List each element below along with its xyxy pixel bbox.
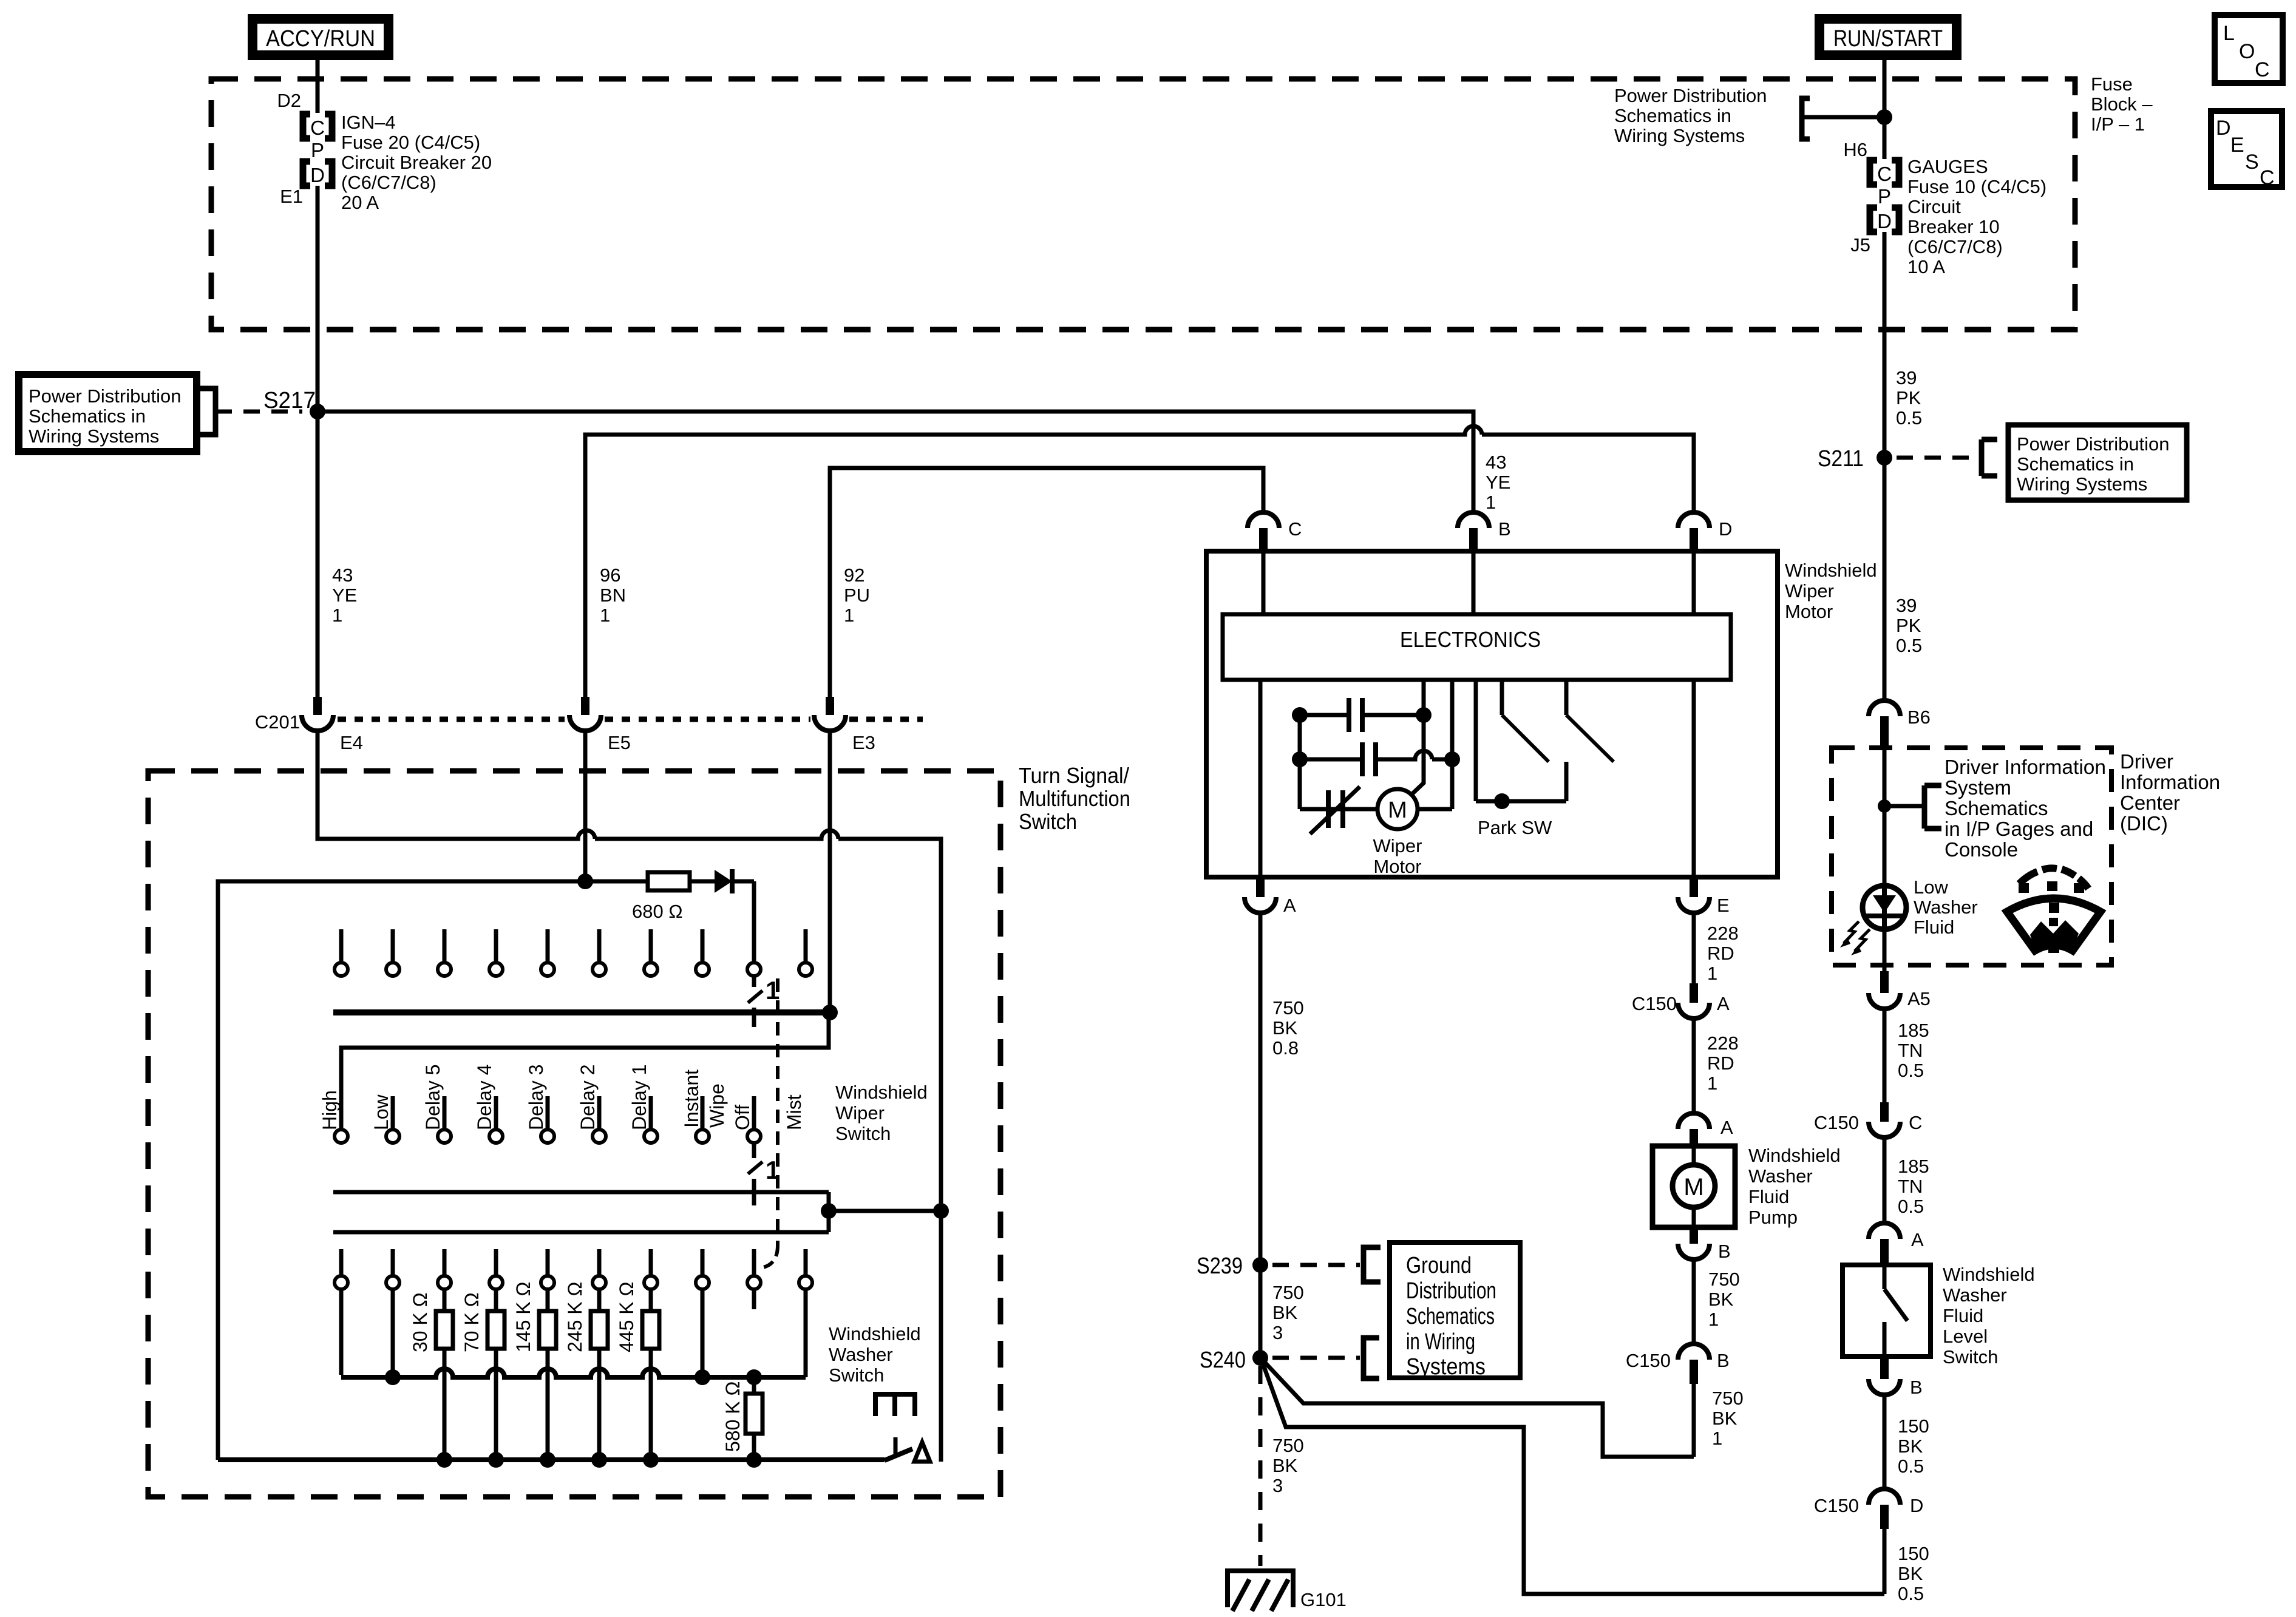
svg-text:92: 92 [844,564,864,586]
svg-text:Switch: Switch [829,1364,884,1386]
svg-text:Wiring Systems: Wiring Systems [2017,473,2147,495]
row 2 contact stubs [391,1096,395,1130]
svg-text:BK: BK [1898,1436,1923,1457]
svg-text:C150: C150 [1626,1350,1671,1371]
rail high speed [341,1015,829,1130]
turn signal multifunction switch dashed box [148,771,1000,1497]
svg-text:S240: S240 [1200,1347,1246,1373]
wire capacitor right leg [1450,680,1455,809]
svg-text:C201: C201 [255,711,300,733]
svg-text:D: D [310,164,325,186]
svg-text:Windshield: Windshield [835,1082,928,1103]
connector A5 [1880,971,1889,993]
capacitor 2 [1300,751,1452,759]
svg-text:228: 228 [1707,1032,1739,1054]
svg-text:245 K Ω: 245 K Ω [564,1282,586,1352]
bracket S239 [1364,1247,1381,1282]
svg-text:D: D [1719,518,1732,540]
junction low [385,1369,401,1385]
svg-text:1: 1 [600,605,610,626]
svg-text:Motor: Motor [1785,601,1833,622]
washer spray icon [2007,898,2101,951]
washer switch arrow [914,1442,930,1462]
reference box Power Distribution left [19,375,197,452]
svg-text:Washer: Washer [1748,1165,1813,1187]
wire E5 branch to wiper motor D [585,426,1694,714]
svg-text:Schematics: Schematics [1944,797,2048,819]
svg-text:Wiring Systems: Wiring Systems [1614,125,1745,146]
svg-text:Low: Low [1914,876,1948,898]
bracket left reference [200,388,216,435]
link washer rail to washer feed [829,1209,941,1213]
svg-text:Distribution: Distribution [1406,1278,1496,1304]
svg-text:C150: C150 [1814,1112,1859,1133]
svg-text:43: 43 [1486,452,1506,473]
wire 750 BK 1 [1692,1259,1696,1343]
svg-text:PK: PK [1896,615,1921,636]
svg-text:20 A: 20 A [341,192,379,213]
wire RUN/START feed [1883,60,1887,159]
svg-text:C: C [2255,58,2270,81]
wire 228 RD 1 [1692,913,1696,983]
svg-text:Information: Information [2120,771,2220,793]
svg-text:Ground: Ground [1406,1253,1472,1278]
svg-text:Low: Low [370,1094,392,1130]
svg-text:1: 1 [1486,492,1496,513]
svg-text:70 K Ω: 70 K Ω [461,1292,483,1352]
svg-text:150: 150 [1898,1543,1929,1564]
svg-text:E: E [2230,134,2244,157]
svg-text:Windshield: Windshield [1748,1145,1841,1166]
svg-text:1: 1 [1707,1073,1717,1094]
svg-text:Systems: Systems [1406,1354,1486,1380]
svg-text:Wiper: Wiper [1373,835,1422,856]
svg-text:RUN/START: RUN/START [1833,26,1943,52]
svg-text:680 Ω: 680 Ω [632,901,683,922]
reference box Power Distribution right [2008,425,2187,500]
svg-text:0.5: 0.5 [1896,635,1922,656]
svg-text:Turn Signal/: Turn Signal/ [1019,763,1129,788]
svg-text:BK: BK [1708,1289,1734,1310]
svg-text:750: 750 [1272,997,1304,1019]
svg-text:Delay 1: Delay 1 [628,1065,650,1131]
wiper motor M [1377,789,1418,829]
svg-text:B: B [1718,1241,1731,1262]
svg-text:C: C [1877,163,1892,185]
svg-text:RD: RD [1707,943,1734,964]
svg-text:0.5: 0.5 [1898,1456,1924,1477]
svg-text:(C6/C7/C8): (C6/C7/C8) [341,172,436,193]
connector E wiper motor [1690,877,1698,897]
svg-text:Schematics in: Schematics in [1614,105,1731,126]
connector C150 cavity D [1869,1489,1900,1505]
svg-text:Center: Center [2120,792,2180,814]
svg-text:BK: BK [1712,1408,1737,1429]
svg-text:YE: YE [332,585,357,606]
splice S239 [1252,1257,1268,1273]
svg-text:Switch: Switch [835,1123,891,1144]
washer switch lever [885,1449,912,1460]
svg-text:C150: C150 [1632,993,1677,1014]
motor supply rail [1300,807,1377,812]
connector D wiper motor [1678,512,1710,528]
svg-text:S: S [2245,151,2259,174]
svg-text:E1: E1 [280,186,303,207]
svg-text:S217: S217 [263,388,316,413]
svg-text:185: 185 [1898,1020,1929,1041]
svg-text:D: D [1877,210,1892,232]
svg-text:Console: Console [1944,838,2018,861]
ground G101 [1228,1571,1293,1607]
svg-text:Windshield: Windshield [829,1323,921,1344]
svg-text:PU: PU [844,585,870,606]
svg-text:750: 750 [1272,1282,1304,1303]
svg-text:D: D [2216,117,2231,140]
svg-text:in I/P Gages and: in I/P Gages and [1944,818,2093,840]
svg-text:Wipe: Wipe [706,1083,728,1128]
svg-text:IGN–4: IGN–4 [341,112,396,133]
wire delay resistor feed [218,881,648,1460]
svg-text:O: O [2239,40,2255,63]
svg-text:Pump: Pump [1748,1207,1798,1228]
svg-text:0.5: 0.5 [1896,407,1922,429]
svg-text:145 K Ω: 145 K Ω [512,1282,534,1352]
junction washer rail [821,1203,837,1219]
svg-text:Instant: Instant [681,1070,702,1128]
svg-text:Windshield: Windshield [1785,560,1877,581]
junction E5 delay feed [577,873,593,889]
svg-text:TN: TN [1898,1176,1923,1197]
svg-text:Delay 3: Delay 3 [525,1065,547,1131]
svg-text:Windshield: Windshield [1943,1264,2035,1285]
svg-text:Motor: Motor [1373,856,1421,877]
indicator low washer fluid [1863,886,1906,929]
row 3 contact stubs [339,1249,344,1276]
resistor 580 K [752,1377,756,1394]
driver information center dashed box [1832,748,2111,965]
svg-text:Driver Information: Driver Information [1944,756,2106,778]
svg-text:Park SW: Park SW [1478,817,1552,838]
bottom bus [218,1457,885,1462]
DESC reference box [2211,111,2282,187]
off-mist moving contact upper [752,976,756,987]
ignition switch symbol [1326,790,1331,828]
wire E4 into switch top rail [318,731,941,1462]
connector B wiper motor [1458,512,1489,528]
svg-text:Schematics: Schematics [1406,1304,1495,1329]
svg-text:(C6/C7/C8): (C6/C7/C8) [1907,236,2003,257]
svg-text:Delay 5: Delay 5 [422,1065,444,1131]
svg-text:0.5: 0.5 [1898,1196,1924,1217]
bus rail A [333,1009,830,1015]
wire low to resistor bus [391,1289,395,1375]
svg-text:E4: E4 [340,732,363,753]
diode [715,870,732,893]
svg-text:Fuse: Fuse [2091,73,2133,95]
svg-text:BN: BN [600,585,626,606]
svg-text:C: C [2260,166,2275,189]
connector C150 cavity C [1880,1102,1889,1122]
svg-text:Driver: Driver [2120,750,2173,773]
svg-text:H6: H6 [1843,139,1867,160]
wire fuse to S217 [316,186,320,412]
dashed link S211 [1897,456,1982,460]
rail washer slot [333,1192,829,1232]
wire E3 branch to wiper motor C [830,468,1263,714]
electronics box [1223,614,1731,680]
svg-text:228: 228 [1707,923,1739,944]
wire E inside [1692,680,1696,877]
wire 150 BK 0.5 [1883,1395,1887,1488]
svg-text:D2: D2 [277,90,301,111]
bracket to power distribution reference [1802,98,1810,139]
connector C201 cavity E4 [313,697,322,715]
connector A washer pump [1678,1113,1710,1129]
washer switch fixed contact [875,1394,915,1416]
wire level switch ground to S240 [1263,1363,1884,1594]
svg-text:Off: Off [732,1105,753,1130]
connector C wiper motor [1248,512,1279,528]
fuse GAUGES CPD symbol [1870,160,1877,185]
wire 43 YE from S217 down [316,412,320,714]
wire E5 into switch [583,731,588,881]
svg-text:Block –: Block – [2091,93,2153,115]
resistor mid bus [341,1369,806,1377]
wire into DIC [1883,748,1887,971]
svg-text:G101: G101 [1300,1589,1347,1610]
svg-text:1: 1 [1712,1428,1722,1449]
svg-text:C: C [1288,518,1302,540]
svg-text:L: L [2223,22,2235,45]
svg-text:Wiring Systems: Wiring Systems [29,425,159,447]
wire S217 to wiper motor B [318,412,1473,512]
svg-text:E: E [1717,895,1730,916]
svg-text:Level: Level [1943,1326,1988,1347]
svg-text:YE: YE [1486,472,1510,493]
svg-text:750: 750 [1712,1388,1744,1409]
svg-text:Washer: Washer [829,1344,893,1365]
wire fuse to S211 [1883,232,1887,458]
svg-text:ELECTRONICS: ELECTRONICS [1400,627,1541,652]
junction instant wipe [695,1369,710,1385]
LOC reference box [2215,15,2283,83]
svg-text:E3: E3 [852,732,875,753]
svg-text:0.8: 0.8 [1272,1037,1299,1059]
svg-text:BK: BK [1272,1455,1298,1476]
svg-text:Fluid: Fluid [1914,917,1954,938]
connector B washer pump [1690,1227,1698,1244]
wire E3 into switch [828,731,832,1012]
svg-text:PK: PK [1896,387,1921,408]
svg-text:B: B [1717,1350,1730,1371]
wires connectors to electronics [1262,551,1266,614]
svg-text:150: 150 [1898,1415,1929,1437]
svg-text:ACCY/RUN: ACCY/RUN [266,26,375,52]
svg-text:750: 750 [1272,1435,1304,1456]
spray dashes [2019,872,2037,884]
dashed link S240 [1272,1356,1360,1360]
wire instant wipe to bus [701,1289,705,1375]
svg-text:1: 1 [844,605,854,626]
wire A inside [1258,680,1263,877]
svg-text:P: P [1878,185,1891,208]
bracket S211 [1982,439,1997,476]
svg-text:A: A [1911,1229,1924,1250]
windshield washer fluid pump box [1652,1146,1735,1227]
svg-text:A: A [1283,895,1296,916]
bracket S240 [1364,1338,1379,1378]
connector C201 cavity E5 [581,697,589,715]
svg-text:39: 39 [1896,367,1917,388]
svg-text:1: 1 [766,1156,779,1184]
connector C150 cavity B [1678,1344,1710,1360]
connector B6 [1869,700,1900,716]
connector C201 line dotted [338,717,565,722]
svg-text:1: 1 [1708,1309,1719,1330]
power feed box RUN/START [1819,19,1957,55]
capacitor 1 [1300,713,1349,717]
svg-text:P: P [311,139,324,161]
svg-text:GAUGES: GAUGES [1907,156,1988,177]
splice S211 [1877,450,1892,466]
svg-text:B: B [1498,518,1511,540]
wire ACCY/RUN feed [316,60,320,113]
svg-text:445 K Ω: 445 K Ω [616,1282,637,1352]
svg-text:30 K Ω: 30 K Ω [409,1292,431,1352]
bracket DIC reference [1924,785,1941,829]
off-mist moving contact lower [752,1143,756,1158]
indicator arrows [1844,921,1859,943]
splice S217 [310,404,325,419]
svg-text:0.5: 0.5 [1898,1583,1924,1604]
svg-text:10 A: 10 A [1907,256,1945,277]
svg-text:RD: RD [1707,1053,1734,1074]
windshield wiper motor box [1206,551,1778,877]
wire capacitor left leg [1298,715,1302,809]
connector A wiper motor [1256,877,1265,897]
svg-text:1: 1 [1707,963,1717,984]
svg-text:3: 3 [1272,1322,1283,1343]
svg-text:I/P – 1: I/P – 1 [2091,114,2145,135]
svg-text:Circuit Breaker 20: Circuit Breaker 20 [341,152,492,173]
park switch [1474,680,1478,801]
junction dots bottom bus [436,1452,452,1468]
connector A level switch [1869,1223,1900,1239]
svg-text:Power Distribution: Power Distribution [2017,433,2170,455]
svg-text:Switch: Switch [1019,809,1077,834]
svg-text:Fluid: Fluid [1943,1305,1983,1326]
delay resistors 30K-445K [443,1289,447,1311]
svg-text:in Wiring: in Wiring [1406,1329,1475,1355]
svg-text:C150: C150 [1814,1495,1859,1516]
junction washer feed [933,1203,949,1219]
wire 185 TN 0.5 [1883,1009,1887,1102]
wire low washer to A5 [1883,928,1887,971]
dashed link to S217 [216,410,302,414]
connector C201 cavity E3 [826,697,834,715]
svg-text:BK: BK [1272,1302,1298,1323]
wire 228 RD 1 lower [1692,1019,1696,1112]
svg-text:0.5: 0.5 [1898,1060,1924,1081]
svg-text:Mist: Mist [783,1094,805,1130]
svg-text:B6: B6 [1907,707,1931,728]
svg-text:750: 750 [1708,1269,1740,1290]
svg-text:Washer: Washer [1914,897,1978,918]
row 2 terminals [335,1130,348,1143]
connector C150 cavity A [1690,983,1698,1003]
dashed link S239 [1272,1263,1360,1267]
junction on RUN/START feed [1877,109,1892,125]
wire off row3 stub [752,1289,756,1309]
mist linkage dashed upper [776,978,779,1246]
svg-text:S239: S239 [1197,1253,1243,1279]
resistor 680 ohm [648,872,690,890]
splice S240 [1252,1350,1268,1366]
wire high to resistor bus [339,1289,344,1375]
svg-text:Wiper: Wiper [835,1102,885,1124]
junction E3 bus A [822,1005,838,1020]
svg-text:M: M [1388,798,1407,823]
svg-text:43: 43 [332,564,353,586]
svg-text:Power Distribution: Power Distribution [1614,85,1767,106]
svg-text:Schematics in: Schematics in [29,405,146,427]
svg-text:Delay 2: Delay 2 [577,1065,599,1131]
fuse IGN-4 CPD symbol [303,114,310,138]
wire 750 BK 1 lower [1692,1384,1696,1457]
svg-text:B: B [1910,1377,1923,1398]
svg-text:Switch: Switch [1943,1346,1998,1368]
svg-text:Circuit: Circuit [1907,196,1961,217]
svg-text:A5: A5 [1907,988,1931,1009]
wire pump ground to S240 [1264,1361,1694,1457]
junction DIC reference [1878,799,1891,813]
svg-text:D: D [1910,1495,1923,1516]
wire 750 BK 3 [1258,1265,1263,1358]
svg-text:Delay 4: Delay 4 [474,1065,495,1131]
fuse block dashed outline [211,79,2075,330]
wire 185 TN 0.5 lower [1883,1137,1887,1222]
svg-text:A: A [1717,993,1730,1014]
svg-text:(DIC): (DIC) [2120,812,2168,835]
power feed box ACCY/RUN [253,19,389,55]
svg-text:Washer: Washer [1943,1284,2007,1306]
windshield washer fluid level switch box [1843,1265,1931,1357]
row 1 off contact from diode [752,881,756,963]
svg-text:S211: S211 [1818,446,1864,472]
svg-text:BK: BK [1898,1563,1923,1584]
svg-text:Wiper: Wiper [1785,580,1834,602]
wire 150 BK 0.5 lower [1883,1529,1887,1594]
svg-text:TN: TN [1898,1040,1923,1061]
svg-text:E5: E5 [608,732,631,753]
wire 750 BK 3 to ground dashed [1258,1366,1263,1566]
svg-text:Fluid: Fluid [1748,1186,1789,1207]
svg-text:96: 96 [600,564,620,586]
svg-text:M: M [1683,1174,1703,1201]
svg-text:C: C [310,117,325,139]
wire 750 BK 0.8 [1258,913,1263,1265]
svg-text:185: 185 [1898,1156,1929,1177]
svg-text:580 K Ω: 580 K Ω [722,1381,744,1452]
row 1 stationary contacts [339,929,344,963]
svg-text:1: 1 [332,605,342,626]
svg-text:Multifunction: Multifunction [1019,786,1130,811]
svg-text:High: High [319,1090,341,1130]
svg-text:3: 3 [1272,1475,1283,1496]
wire mist to bus end [804,1289,808,1377]
svg-text:39: 39 [1896,595,1917,616]
svg-text:Power Distribution: Power Distribution [29,385,182,407]
